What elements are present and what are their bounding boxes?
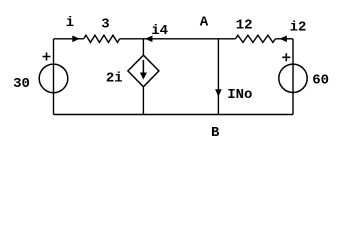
wire right vertical bbox=[292, 39, 294, 115]
plus sign of source 60 bbox=[282, 53, 290, 61]
plus sign of source 30 bbox=[43, 53, 51, 61]
resistor 12 bbox=[235, 35, 275, 42]
svg-text:60: 60 bbox=[312, 73, 329, 89]
wire middle branch below diamond bbox=[142, 87, 144, 115]
label i bbox=[66, 15, 74, 31]
wire top middle horizontal bbox=[120, 38, 236, 40]
current arrow i (points right) bbox=[72, 36, 80, 43]
arrow inside dependent source bbox=[140, 60, 147, 80]
wire middle branch above diamond bbox=[142, 39, 144, 55]
wire INo branch vertical bbox=[217, 39, 219, 115]
svg-text:A: A bbox=[200, 15, 209, 31]
svg-text:i2: i2 bbox=[290, 20, 307, 36]
label 12 bbox=[236, 17, 253, 33]
wire bottom horizontal bbox=[54, 114, 294, 116]
resistor 3 bbox=[84, 35, 120, 42]
svg-text:12: 12 bbox=[236, 17, 253, 33]
label 2i bbox=[106, 71, 123, 87]
svg-text:3: 3 bbox=[101, 17, 109, 33]
node A label bbox=[200, 15, 209, 31]
current arrow INo (points down) bbox=[215, 89, 222, 97]
svg-text:B: B bbox=[211, 125, 220, 141]
label 30 bbox=[13, 76, 30, 92]
voltage source 30 (circle) bbox=[39, 64, 68, 93]
label 60 bbox=[312, 73, 329, 89]
svg-text:2i: 2i bbox=[106, 71, 123, 87]
svg-text:i: i bbox=[66, 15, 74, 31]
label INo bbox=[227, 87, 252, 103]
voltage source 60 (circle) bbox=[279, 64, 307, 92]
current arrow i2 (points left) bbox=[279, 36, 287, 43]
label i2 bbox=[290, 20, 307, 36]
svg-text:INo: INo bbox=[227, 87, 252, 103]
dependent current source 2i (diamond) bbox=[128, 55, 159, 87]
current arrow i4 (points left) bbox=[145, 36, 153, 43]
wire top right horizontal bbox=[275, 38, 293, 40]
svg-text:i4: i4 bbox=[151, 23, 168, 39]
node B label bbox=[211, 125, 220, 141]
label i4 bbox=[151, 23, 168, 39]
svg-text:30: 30 bbox=[13, 76, 30, 92]
wire top left horizontal bbox=[54, 38, 84, 40]
wire left vertical bbox=[53, 39, 55, 115]
label 3 bbox=[101, 17, 109, 33]
